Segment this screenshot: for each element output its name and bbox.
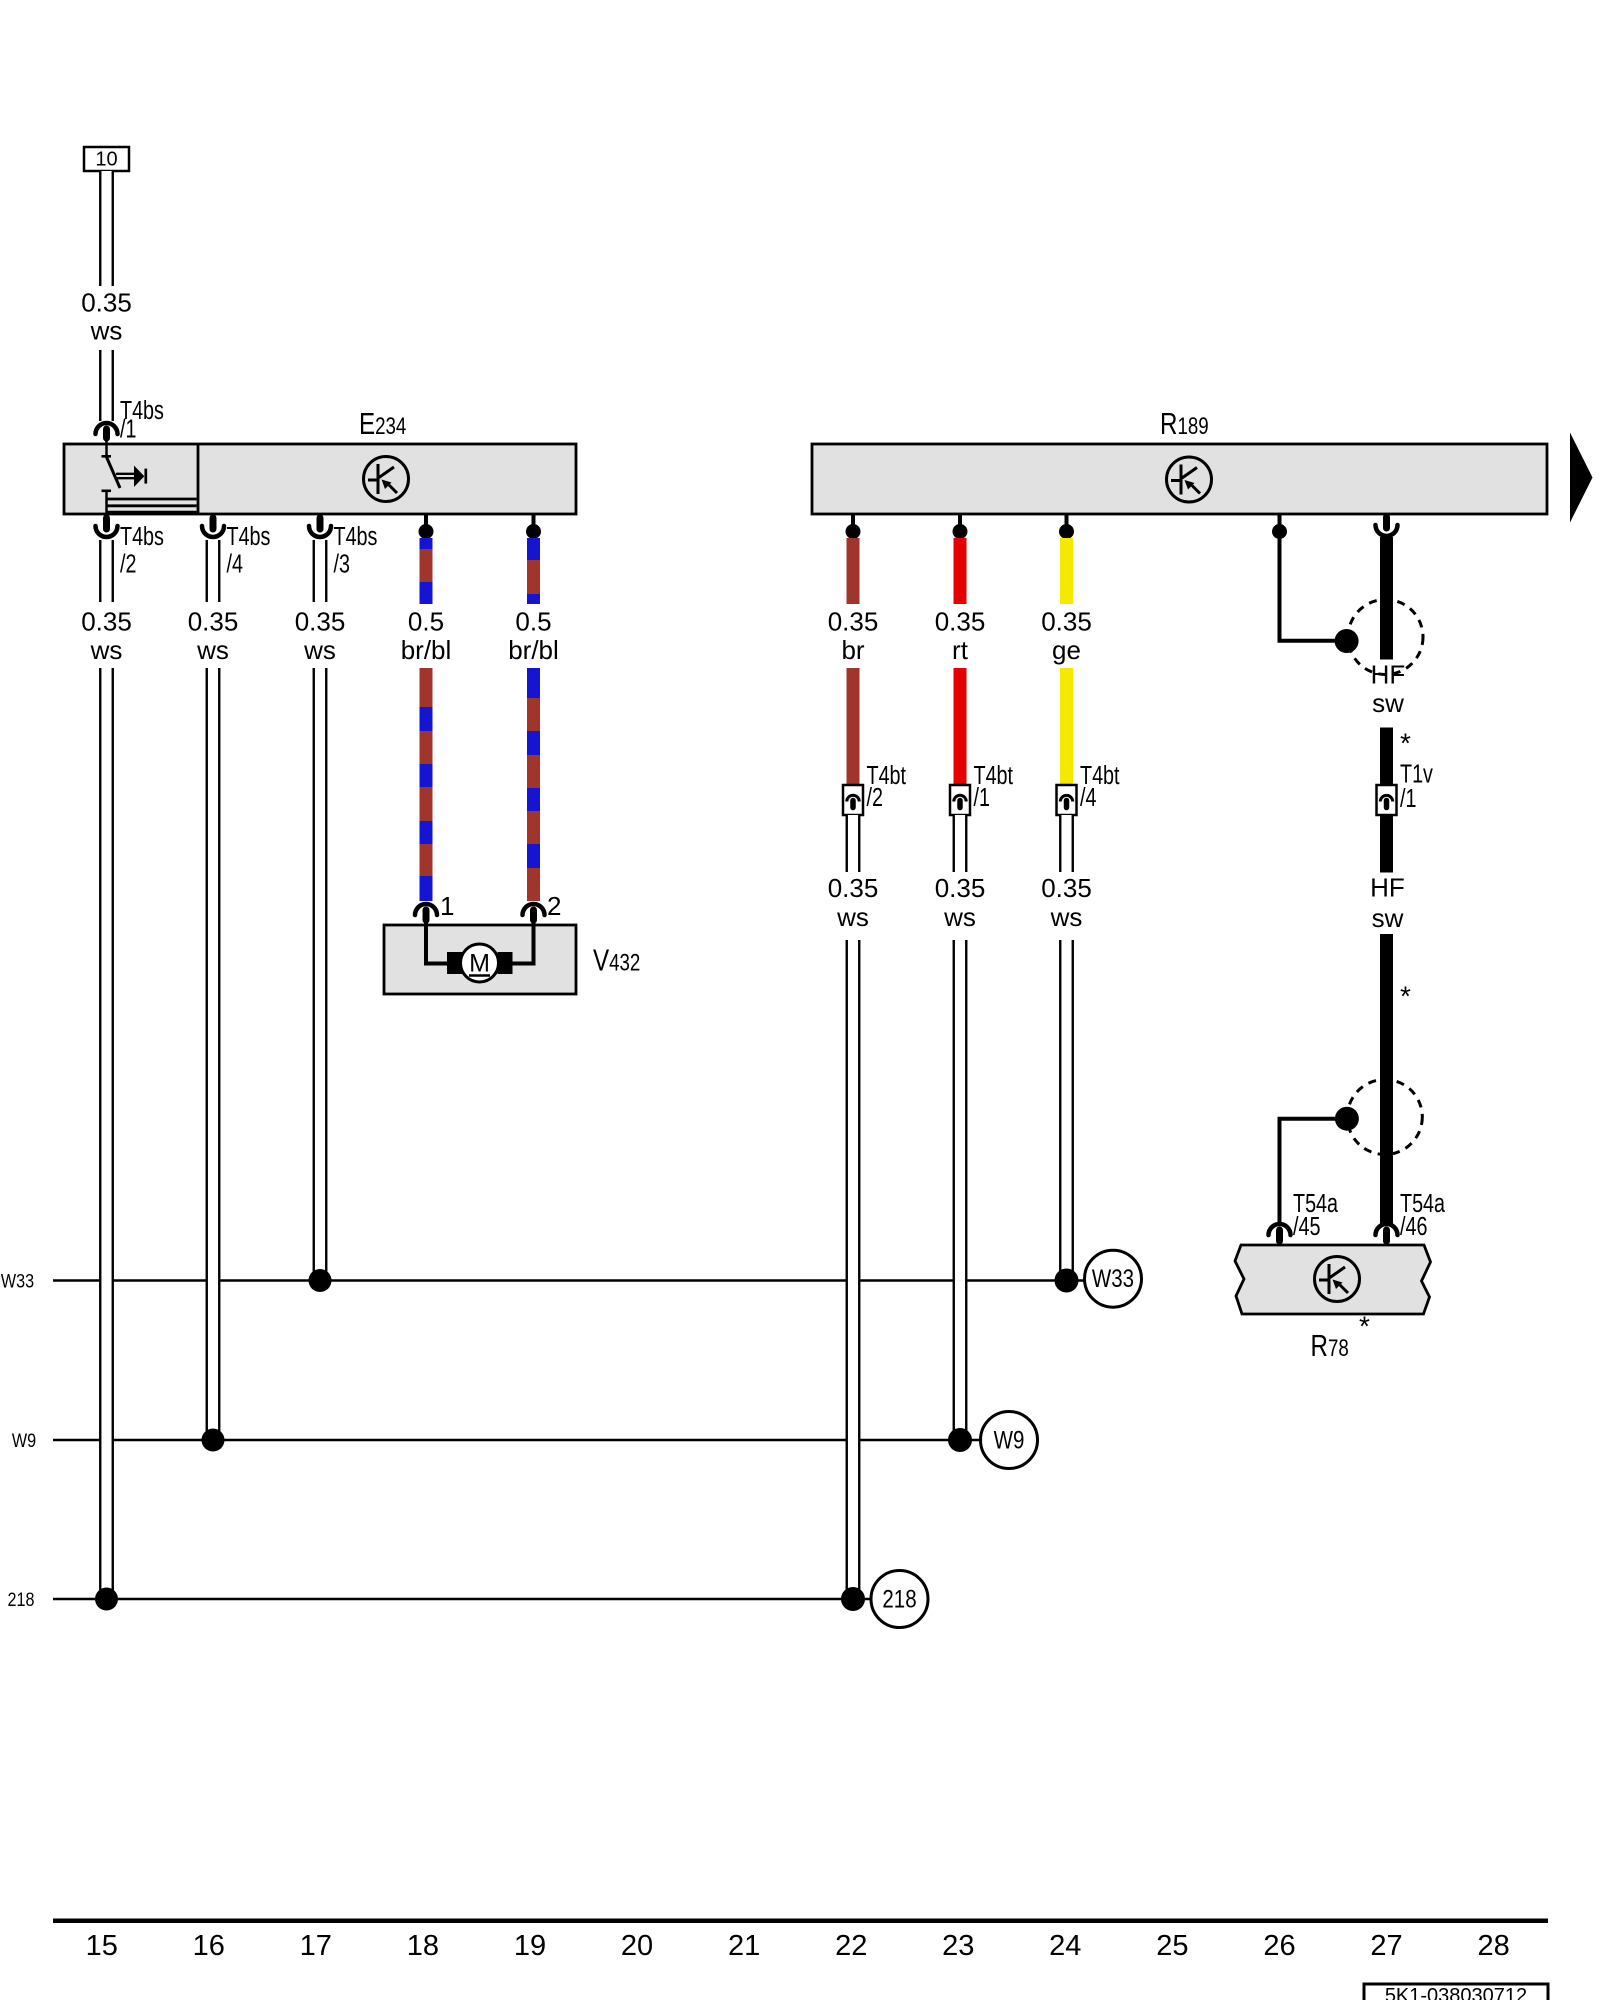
inline connector T4bt/2 [843,785,863,815]
junction dot W9/rt [948,1428,972,1452]
wire HF sw segment 3 [1380,815,1393,873]
svg-text:23: 23 [942,1930,974,1962]
E234 compartment divider [197,444,200,514]
svg-text:0.35: 0.35 [828,873,879,903]
connector pin 1 on V432 [415,904,437,915]
wire 0.5 br/bl (2) upper [527,538,540,560]
svg-text:W9: W9 [12,1430,36,1452]
svg-text:0.35: 0.35 [81,607,132,637]
grid ruler line [53,1918,1548,1923]
drawing number box 5K1-038030712 [1364,1984,1548,2000]
terminal circle W9 [981,1412,1038,1469]
svg-text:/1: /1 [1400,783,1416,812]
svg-text:/2: /2 [867,782,883,811]
svg-text:/1: /1 [974,782,990,811]
motor brush right [498,952,513,974]
svg-text:18: 18 [407,1930,439,1962]
svg-text:ws: ws [836,902,869,932]
V432 internal wiring [426,922,448,964]
svg-text:sw: sw [1372,688,1404,718]
svg-text:25: 25 [1156,1930,1188,1962]
svg-text:0.35: 0.35 [935,607,986,637]
shield symbol dashed circle 1 [1348,600,1423,675]
electronics symbol K in R78 [1315,1257,1360,1302]
switch unit E234 box [64,444,576,514]
svg-text:26: 26 [1263,1930,1295,1962]
svg-text:*: * [1400,981,1411,1012]
wire 0.35 ws from fuse 10 [100,171,113,286]
svg-text:W33: W33 [1092,1264,1134,1292]
svg-text:/1: /1 [120,414,136,443]
svg-text:0.35: 0.35 [828,607,879,637]
svg-text:28: 28 [1477,1930,1509,1962]
junction dot W9/T4bs4 [202,1429,225,1452]
wire 0.5 br/bl (2) lower [527,668,540,698]
inline connector T4bt/1 [950,785,970,815]
R189 pin stub x=853 [851,514,855,526]
svg-text:5K1-038030712: 5K1-038030712 [1385,1985,1527,2000]
svg-text:br/bl: br/bl [401,635,452,665]
svg-text:ws: ws [1050,902,1083,932]
junction dot [526,524,541,539]
aerial amplifier R78 box [1235,1245,1431,1314]
svg-text:21: 21 [728,1930,760,1962]
svg-text:/2: /2 [120,549,136,578]
svg-text:1: 1 [440,891,454,921]
wire 0.35 ws at x=106.5 upper [100,540,113,602]
junction dot 218/T4bs2 [95,1588,118,1611]
R189 pin stub x=960 [958,514,962,526]
svg-text:0.35: 0.35 [188,607,239,637]
svg-text:16: 16 [193,1930,225,1962]
svg-text:0.35: 0.35 [81,288,132,318]
electronics symbol K in E234 [364,457,409,502]
junction dot W33/ge [1055,1269,1079,1293]
connector T4bs/4 [210,518,217,529]
svg-text:0.35: 0.35 [935,873,986,903]
svg-text:22: 22 [835,1930,867,1962]
shield drain wire [1280,538,1347,641]
E234 pin to V432 wire 2 [532,514,536,526]
wire W33 bus line [53,1279,1085,1282]
svg-text:HF: HF [1370,873,1405,903]
svg-text:*: * [1359,1311,1370,1342]
svg-text:T4bs: T4bs [334,521,378,550]
wire HF sw segment 1 [1380,537,1393,660]
svg-text:ws: ws [196,635,229,665]
svg-text:M: M [469,950,490,978]
wire ws from T4bt/1 to W9 bus [954,940,967,1440]
connector T4bs/3 [317,518,324,529]
junction dot 218/br [841,1587,865,1611]
fuse 10 [84,147,129,171]
svg-text:0.5: 0.5 [408,607,444,637]
wire 0.35 ws below connector [954,815,967,872]
wire 0.35 ws at x=213 to bus [207,668,220,1440]
wire 0.35 ws at x=106.5 to bus [100,668,113,1599]
svg-text:br/bl: br/bl [508,635,559,665]
wire 0.35 ws at x=320 upper [314,540,327,602]
motor V432 box [384,925,576,994]
svg-text:T4bs: T4bs [120,521,164,550]
wire 0.35 ws below connector [1060,815,1073,872]
shield connection dot [1335,629,1359,653]
wire 0.35 rt lower [954,668,967,785]
svg-text:10: 10 [95,149,117,171]
svg-text:*: * [1400,728,1411,759]
svg-text:24: 24 [1049,1930,1081,1962]
wire ws from T4bt/2 to 218 bus [847,940,860,1599]
inline connector T1v/1 [1377,785,1397,815]
wire 0.35 ws at x=320 to bus [314,668,327,1281]
svg-text:T4bs: T4bs [227,521,271,550]
svg-text:sw: sw [1372,903,1404,933]
wire HF sw segment 2 [1380,728,1393,786]
connector pin 2 on V432 [523,904,545,915]
connector T4bs/2 [103,518,110,529]
junction dot W33/T4bs3 [309,1269,332,1292]
terminal circle 218 [871,1571,928,1628]
svg-text:ws: ws [90,316,123,346]
svg-text:2: 2 [547,891,561,921]
shield connection dot 2 [1335,1107,1359,1131]
switch symbol in E234 [102,441,197,514]
svg-text:ws: ws [303,635,336,665]
connector T54a/46 [1376,1224,1398,1235]
shield symbol dashed circle 2 [1347,1080,1422,1155]
wire 0.5 br/bl (1) lower [420,668,433,707]
junction dot [419,524,434,539]
wire ws from T4bt/4 to W33 bus [1060,940,1073,1281]
wire 0.35 br lower [847,668,860,785]
svg-text:/3: /3 [334,549,350,578]
junction dot [846,524,861,539]
svg-text:br: br [841,635,864,665]
control unit R189 box [812,444,1547,514]
shield drain wire to T54a/45 [1280,1119,1347,1226]
svg-text:/46: /46 [1400,1211,1427,1240]
wire 0.35 ws below connector [847,815,860,872]
svg-text:218: 218 [8,1589,35,1611]
svg-text:/45: /45 [1293,1211,1320,1240]
wire 0.35 ge upper [1060,538,1073,604]
switch actuation arrowhead [134,466,144,488]
svg-text:0.35: 0.35 [295,607,346,637]
wire 0.5 br/bl (1) upper [420,538,433,549]
wire 0.35 ws at x=213 upper [207,540,220,602]
wire 0.35 ge lower [1060,668,1073,785]
svg-text:17: 17 [300,1930,332,1962]
svg-text:15: 15 [86,1930,118,1962]
continuation arrow [1570,433,1593,523]
svg-text:0.35: 0.35 [1041,873,1092,903]
connector T54a/45 [1269,1224,1291,1235]
svg-text:W9: W9 [994,1426,1025,1454]
connector T4bs/1 [96,423,118,434]
inline connector T4bt/4 [1057,785,1077,815]
wire 0.35 rt upper [954,538,967,604]
junction dot [1272,524,1287,539]
svg-text:218: 218 [882,1585,916,1613]
svg-text:rt: rt [952,635,969,665]
motor M symbol [461,944,499,982]
R189 pin stub x=1279.5 [1278,514,1282,526]
svg-text:ws: ws [90,635,123,665]
svg-text:HF: HF [1371,660,1406,690]
wire W9 bus line [53,1439,981,1442]
svg-text:W33: W33 [1,1270,34,1292]
motor brush left [447,952,462,974]
wire 218 bus line [53,1598,871,1601]
E234 pin to V432 wire 1 [424,514,428,526]
wire 0.35 br upper [847,538,860,604]
svg-text:/4: /4 [227,549,244,578]
junction dot [953,524,968,539]
connector on R189 for sw wire [1383,517,1390,528]
svg-text:19: 19 [514,1930,546,1962]
svg-text:20: 20 [621,1930,653,1962]
wire HF sw segment 4 [1380,934,1393,1226]
svg-text:27: 27 [1370,1930,1402,1962]
electronics symbol K in R189 [1167,457,1212,502]
svg-text:ws: ws [943,902,976,932]
terminal circle W33 [1085,1250,1142,1307]
svg-text:0.5: 0.5 [515,607,551,637]
wire ws continues [100,350,113,421]
svg-text:/4: /4 [1080,782,1097,811]
R189 pin stub x=1066.5 [1065,514,1069,526]
svg-text:ge: ge [1052,635,1081,665]
junction dot [1059,524,1074,539]
svg-text:0.35: 0.35 [1041,607,1092,637]
